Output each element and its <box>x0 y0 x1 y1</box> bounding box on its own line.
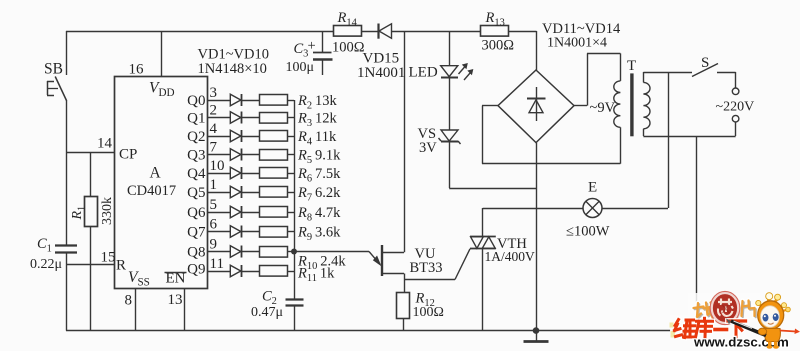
svg-text:R4 11k: R4 11k <box>297 129 337 148</box>
svg-text:C1: C1 <box>37 236 52 255</box>
svg-text:100Ω: 100Ω <box>332 40 365 56</box>
svg-text:300Ω: 300Ω <box>482 38 515 54</box>
svg-text:2: 2 <box>210 103 218 119</box>
svg-text:R6 7.5k: R6 7.5k <box>297 166 341 185</box>
svg-text:14: 14 <box>97 136 113 152</box>
svg-text:Q1: Q1 <box>187 111 205 127</box>
svg-text:C3: C3 <box>294 41 309 60</box>
svg-text:9: 9 <box>210 237 218 253</box>
svg-text:VDD: VDD <box>149 80 175 100</box>
svg-text:VSS: VSS <box>128 269 150 289</box>
svg-text:SB: SB <box>44 61 63 78</box>
svg-text:A: A <box>150 165 162 182</box>
svg-text:16: 16 <box>129 62 145 78</box>
svg-text:S: S <box>701 55 709 71</box>
svg-text:R5 9.1k: R5 9.1k <box>297 148 341 167</box>
svg-text:R: R <box>116 258 126 274</box>
svg-text:10: 10 <box>210 158 225 174</box>
svg-text:R3 12k: R3 12k <box>297 111 337 130</box>
svg-text:+: + <box>308 38 316 54</box>
svg-text:100Ω: 100Ω <box>413 305 444 320</box>
svg-text:5: 5 <box>210 197 218 213</box>
svg-text:R14: R14 <box>337 10 358 29</box>
svg-text:1A/400V: 1A/400V <box>485 249 536 264</box>
svg-text:R8 4.7k: R8 4.7k <box>297 205 341 224</box>
svg-text:R2 13k: R2 13k <box>297 93 337 112</box>
svg-text:7: 7 <box>210 140 218 156</box>
svg-text:3: 3 <box>210 85 218 101</box>
svg-text:4: 4 <box>210 121 218 137</box>
svg-text:CP: CP <box>119 147 137 163</box>
svg-text:T: T <box>627 58 636 74</box>
svg-text:R9 3.6k: R9 3.6k <box>297 225 341 244</box>
svg-text:Q9: Q9 <box>187 262 205 278</box>
svg-text:1N4001: 1N4001 <box>357 65 405 81</box>
svg-text:VD1~VD10: VD1~VD10 <box>198 46 269 62</box>
svg-text:Q4: Q4 <box>187 166 206 182</box>
svg-text:R13: R13 <box>485 10 505 29</box>
svg-text:Q6: Q6 <box>187 205 206 221</box>
svg-text:Q2: Q2 <box>187 129 205 145</box>
svg-text:R1: R1 <box>70 206 88 221</box>
svg-text:3V: 3V <box>419 140 437 156</box>
svg-text:1N4148×10: 1N4148×10 <box>198 61 267 77</box>
svg-text:100μ: 100μ <box>286 60 315 75</box>
svg-text:Q3: Q3 <box>187 148 205 164</box>
svg-text:11: 11 <box>210 256 224 272</box>
svg-text:Q7: Q7 <box>187 225 206 241</box>
svg-text:Q8: Q8 <box>187 245 205 261</box>
svg-text:13: 13 <box>168 292 183 308</box>
svg-text:R11 1k: R11 1k <box>297 266 335 285</box>
svg-text:0.22μ: 0.22μ <box>30 257 62 272</box>
svg-text:~220V: ~220V <box>716 100 755 115</box>
svg-text:15: 15 <box>101 250 116 266</box>
svg-text:8: 8 <box>125 293 133 309</box>
svg-text:Q5: Q5 <box>187 185 205 201</box>
svg-text:Q0: Q0 <box>187 93 205 109</box>
svg-text:6: 6 <box>210 217 218 233</box>
svg-text:≤100W: ≤100W <box>566 224 610 240</box>
svg-text:1: 1 <box>210 177 218 193</box>
svg-text:BT33: BT33 <box>410 260 443 276</box>
svg-text:~9V: ~9V <box>590 100 616 116</box>
svg-text:330k: 330k <box>100 197 115 225</box>
svg-text:1N4001×4: 1N4001×4 <box>547 36 607 51</box>
svg-text:0.47μ: 0.47μ <box>251 305 283 320</box>
svg-text:LED: LED <box>409 64 438 80</box>
svg-text:R7 6.2k: R7 6.2k <box>297 185 341 204</box>
svg-text:E: E <box>588 180 597 196</box>
svg-text:CD4017: CD4017 <box>127 183 176 199</box>
